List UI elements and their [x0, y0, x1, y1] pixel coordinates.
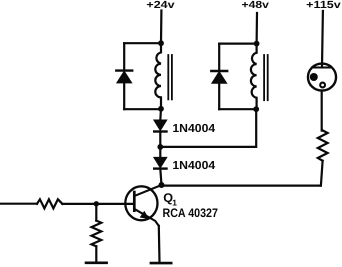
diode D1 cathode bar: [116, 69, 132, 71]
node relay2 top junction: [254, 41, 260, 47]
wire lamp to resistor: [321, 91, 323, 130]
diode D3 cathode bar: [154, 130, 166, 132]
relay K2 core line 1: [263, 55, 265, 100]
wire D2 bottom lead: [218, 83, 220, 109]
svg-text:1N4004: 1N4004: [172, 122, 215, 135]
ground under R2: [86, 261, 107, 264]
wire D1 top lead: [123, 43, 125, 69]
diode D1 triangle: [117, 72, 131, 83]
node relay2 bottom junction: [253, 106, 259, 112]
transistor Q1 circle: [125, 186, 157, 220]
diode D4 1N4004 triangle: [154, 158, 166, 168]
wire relay1 bottom to D3: [159, 109, 162, 120]
wire relay2 top horizontal: [219, 42, 256, 44]
wire node to D4: [159, 147, 161, 158]
wire relay1 top horizontal: [124, 42, 161, 44]
svg-text:+115v: +115v: [306, 0, 341, 11]
node collector junction: [159, 182, 165, 188]
wire collector horizontal: [162, 185, 321, 187]
resistor R2: [92, 221, 102, 247]
node relay1 top junction: [158, 40, 164, 46]
diode D3 1N4004 triangle: [154, 120, 166, 130]
wire relay2 bottom horizontal: [219, 108, 256, 110]
node base junction: [94, 201, 99, 206]
diode D4 cathode bar: [154, 167, 166, 169]
diode D2 cathode bar: [211, 70, 227, 72]
wire R1 to base: [62, 203, 133, 205]
resistor R3: [318, 130, 328, 160]
wire D4 to collector node: [160, 169, 161, 185]
wire junction down to R2: [95, 204, 97, 221]
wire relay1 bottom horizontal: [124, 108, 161, 110]
inductor L2 relay coil: [251, 44, 257, 110]
inductor L1 relay coil: [155, 43, 161, 109]
wire +48v rail down: [256, 13, 259, 44]
lamp I1 neon indicator circle: [308, 64, 336, 91]
wire R2 to ground: [95, 246, 97, 262]
transistor Q1 emitter lead: [135, 209, 159, 226]
ground under emitter: [151, 262, 171, 265]
wire emitter down: [158, 226, 161, 262]
lamp I1 top electrode bar: [312, 66, 331, 68]
svg-text:1N4004: 1N4004: [172, 159, 215, 172]
lamp I1 left dot electrode: [310, 73, 318, 81]
wire relay2 bottom to diode node: [160, 109, 256, 147]
wire R3 down to corner: [321, 161, 323, 186]
transistor Q1 emitter arrow: [140, 211, 150, 219]
relay K2 core line 2: [267, 55, 269, 100]
relay K1 core line 2: [171, 55, 173, 99]
svg-text:+24v: +24v: [146, 0, 175, 11]
wire +24v rail down: [160, 11, 163, 44]
node between diodes: [157, 144, 163, 150]
transistor Q1 collector lead: [135, 185, 162, 196]
wire D2 top lead: [218, 44, 220, 70]
svg-text:RCA 40327: RCA 40327: [163, 206, 218, 220]
relay K1 core line 1: [167, 55, 169, 99]
diode D2 triangle: [212, 72, 226, 83]
resistor R1: [37, 199, 62, 208]
wire D3 to node: [159, 132, 161, 147]
wire +115v rail down: [321, 11, 324, 67]
transistor Q1 base bar: [133, 192, 136, 211]
node relay1 bottom junction: [158, 106, 164, 112]
wire D1 bottom lead: [123, 83, 125, 110]
svg-text:+48v: +48v: [242, 0, 270, 11]
lamp I1 small ring electrode: [320, 83, 325, 88]
wire input left: [0, 203, 37, 205]
